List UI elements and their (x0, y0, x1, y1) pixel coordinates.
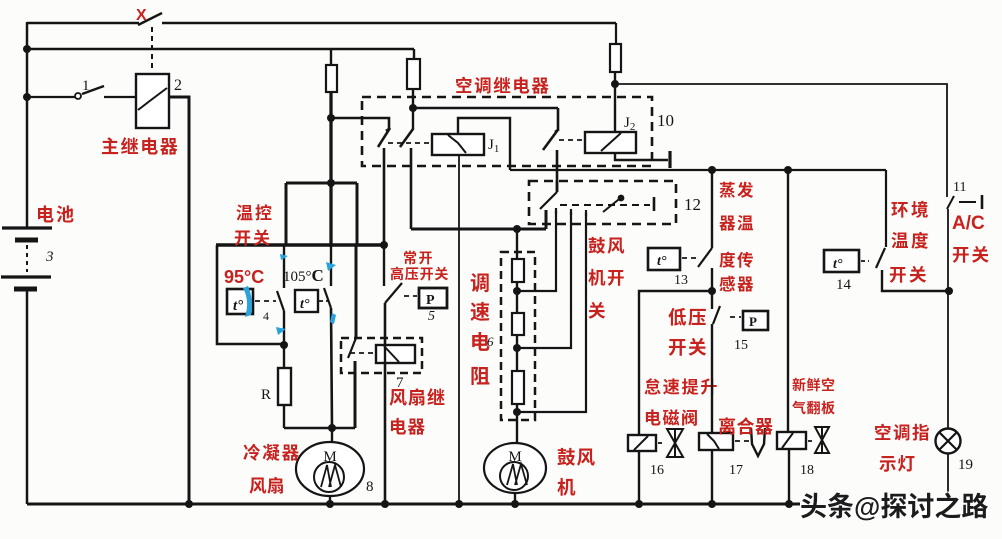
thermo sensor t-box 13 (648, 248, 680, 270)
A/C relay dashed box 10 (362, 97, 652, 166)
wire fuse F1 to node (329, 92, 332, 247)
relay J1 coil diagonal (448, 135, 466, 153)
blower switch contact tick2 (570, 209, 572, 215)
junction dot tap1 (513, 287, 521, 295)
svg-text:18: 18 (800, 463, 814, 478)
svg-text:风扇继: 风扇继 (389, 384, 446, 410)
svg-text:1: 1 (82, 78, 90, 94)
wire fuse F3 down to J2 coil (614, 72, 616, 132)
svg-text:95°C: 95°C (224, 267, 264, 287)
wire R to fan node (283, 405, 285, 428)
wire LP switch feed (711, 291, 713, 309)
fan relay coil box (376, 345, 415, 363)
AC switch fixed dash (959, 201, 976, 203)
junction dot HP switch node (380, 241, 388, 249)
mech dashed link 15 (730, 316, 741, 318)
svg-text:P: P (749, 314, 757, 329)
junction dot AC light node (945, 287, 953, 295)
wire top bus (battery + to X switch) (27, 22, 139, 25)
fan motor inner circle (314, 462, 344, 492)
wire evap node to solenoid (639, 291, 712, 435)
svg-text:头条@探讨之路: 头条@探讨之路 (800, 485, 988, 524)
wire K2 pivot to resistor bus (411, 228, 546, 231)
blower switch contact tick3 (585, 210, 587, 216)
wire 105 switch feed (330, 247, 332, 286)
svg-text:14: 14 (836, 277, 852, 293)
svg-text:温度: 温度 (891, 228, 931, 253)
junction dot bus flap (785, 500, 793, 508)
svg-text:器温: 器温 (719, 210, 755, 234)
svg-text:X: X (136, 7, 147, 24)
wire frame left leg (285, 183, 288, 245)
mech dashed link contacts to J1 (388, 142, 431, 144)
wire to resistor R (283, 345, 285, 368)
junction dot bus fan coil (381, 500, 389, 508)
svg-text:3: 3 (45, 249, 54, 265)
svg-text:鼓风: 鼓风 (588, 233, 626, 258)
junction dot fuse1 node (327, 114, 335, 122)
svg-text:11: 11 (953, 180, 966, 195)
wire ambient switch out (882, 270, 949, 291)
battery plate short top (15, 238, 38, 243)
pressure sensor box P5 (419, 288, 447, 308)
resistor r3 (512, 371, 524, 404)
wire clutch line through (711, 450, 713, 504)
clutch 17 coil diagonal (707, 434, 719, 449)
mech dashed link fan relay (350, 352, 375, 354)
junction dot bus fan motor (326, 500, 334, 508)
blower motor inner circle (500, 462, 528, 490)
wire thermo feed bus A (216, 243, 384, 247)
pressure sensor box P15 (743, 311, 768, 330)
wire blower switch feed (556, 181, 559, 192)
svg-text:8: 8 (366, 479, 374, 495)
valve symbol 16 (667, 429, 683, 457)
svg-text:P: P (426, 293, 435, 308)
junction dot evap branch (708, 166, 716, 174)
fan relay contact arm (348, 338, 356, 358)
wire main relay output (169, 97, 189, 504)
wire fan motor to ground bus (329, 496, 331, 504)
wire HP switch feed (383, 245, 385, 286)
svg-text:机: 机 (557, 474, 576, 500)
svg-text:气翻板: 气翻板 (792, 398, 836, 418)
wire contact K1 pivot down (383, 148, 386, 244)
junction dot fan motor feed (328, 424, 336, 432)
main relay coil diagonal (138, 88, 167, 110)
thermo sensor t-box 14 (824, 250, 859, 272)
svg-text:电磁阀: 电磁阀 (644, 404, 700, 429)
junction dot bus main relay (185, 500, 193, 508)
wire HP line through coil (384, 345, 386, 363)
wire frame top (286, 182, 357, 185)
cyan mark 5 (330, 313, 336, 324)
svg-text:J2: J2 (624, 115, 635, 133)
switch 1 arm (82, 86, 104, 94)
svg-text:t°: t° (657, 254, 667, 269)
svg-text:电器: 电器 (389, 414, 426, 439)
wire to ignition switch 1 (27, 96, 75, 98)
battery plate long top (2, 226, 52, 229)
mech dashed link 16 (658, 442, 664, 444)
svg-text:蒸发: 蒸发 (719, 177, 755, 201)
wire r3 down to blower (516, 404, 518, 445)
wire frame right leg (356, 183, 359, 245)
svg-text:开关: 开关 (668, 334, 708, 360)
svg-text:15: 15 (734, 338, 748, 353)
battery dashed middle (26, 245, 28, 272)
switch evap arm (698, 248, 712, 267)
mech dashed link HP (404, 295, 417, 297)
wire 95 switch out (283, 311, 285, 345)
fan relay dashed box 7 (341, 338, 422, 373)
switch 1 pivot circle (75, 93, 81, 99)
svg-text:A/C: A/C (952, 213, 985, 234)
relay contact K1 fixed terminal (331, 118, 389, 131)
switch HP arm (385, 283, 402, 303)
svg-text:调速电阻: 调速电阻 (470, 267, 490, 389)
wire J relay contact feed (413, 107, 558, 110)
wire solenoid16 line through (638, 451, 640, 504)
svg-text:开关: 开关 (889, 262, 929, 287)
svg-text:离合器: 离合器 (718, 413, 774, 439)
svg-text:低压: 低压 (668, 304, 708, 330)
wire evap switch feed (711, 170, 713, 248)
svg-text:鼓风: 鼓风 (557, 444, 596, 470)
wire ambient switch feed (885, 170, 887, 247)
svg-text:5: 5 (428, 309, 435, 324)
thermo sensor t-box 105 (295, 290, 318, 312)
wire evap switch out (711, 268, 713, 291)
relay J2 coil diagonal (601, 133, 621, 151)
cyan mark 1 (280, 254, 288, 260)
junction dot switch1 feed (23, 93, 31, 101)
svg-text:主继电器: 主继电器 (101, 133, 179, 159)
switch X contact arm (138, 13, 162, 25)
wire J1 coil bottom down (458, 155, 460, 504)
AC switch terminal bar (981, 195, 984, 209)
svg-text:105°C: 105°C (283, 266, 324, 285)
resistor r2 (512, 313, 524, 335)
junction dot fuse1-thermo node (327, 179, 335, 187)
svg-text:开关: 开关 (234, 224, 272, 249)
flap 18 coil diagonal (782, 433, 793, 448)
svg-text:高压开关: 高压开关 (390, 264, 449, 284)
switch 105 arm (324, 288, 331, 308)
wire 95 switch feed (283, 245, 285, 288)
blower switch wiper knob (618, 195, 625, 202)
switch 95 arm (277, 291, 284, 311)
junction dot resistor top (513, 225, 521, 233)
junction dot 95 out (280, 341, 288, 349)
wire switch1 to relay coil (104, 96, 136, 98)
solenoid 16 coil diagonal (634, 436, 648, 450)
svg-text:16: 16 (650, 463, 664, 478)
clutch pulley symbol (751, 428, 765, 456)
fan blade glyph (321, 465, 341, 487)
fuse F1 (326, 65, 337, 92)
svg-text:12: 12 (684, 195, 701, 214)
svg-text:开关: 开关 (952, 242, 991, 267)
wire battery negative down (26, 289, 29, 504)
svg-text:电池: 电池 (36, 201, 76, 227)
valve symbol 18 (815, 427, 829, 453)
blower motor M outer (484, 443, 546, 493)
wire tap3 (517, 213, 586, 412)
svg-text:t°: t° (300, 297, 310, 312)
dashed link X to main relay (151, 27, 153, 72)
svg-text:13: 13 (674, 273, 688, 288)
wire fuse F2 drop (413, 49, 415, 59)
blower switch wiper dashes (560, 204, 650, 206)
wire resistor bus riser (545, 210, 548, 229)
svg-text:6: 6 (487, 334, 494, 349)
junction dot bus clutch (708, 500, 716, 508)
wire fuse F2 down (412, 89, 414, 130)
wire contact K2 pivot down (410, 148, 413, 229)
junction dot J relay feed (409, 104, 417, 112)
svg-text:风扇: 风扇 (249, 473, 285, 498)
wire flap line through (788, 449, 790, 504)
wire flap feed (787, 170, 789, 432)
solenoid 16 coil box (628, 435, 656, 451)
junction dot low pressure node (708, 287, 716, 295)
wire top bus right of X switch (162, 22, 616, 25)
svg-text:R: R (261, 387, 271, 403)
wire fan contact feed (355, 245, 358, 338)
wire main feed to sensors (510, 169, 886, 171)
svg-text:新鲜空: 新鲜空 (792, 375, 836, 395)
mech dashed link 13 (682, 257, 698, 259)
junction dot bus blower (511, 500, 519, 508)
svg-text:机开: 机开 (588, 265, 626, 290)
wire thermo box left side (217, 245, 282, 344)
wire r1-r2 (516, 282, 518, 313)
mech dashed link 17 (735, 440, 749, 442)
wire fan contact out (354, 361, 357, 428)
fuse F2 (407, 59, 420, 89)
resistor r1 (512, 259, 524, 282)
svg-text:怠速提升: 怠速提升 (644, 373, 719, 398)
blower switch dashed box 12 (529, 181, 676, 224)
junction dot bus J1 (455, 500, 463, 508)
svg-text:t°: t° (833, 257, 843, 272)
junction dot tap2 (513, 344, 521, 352)
blower switch contact tick1 (555, 208, 557, 214)
svg-text:关: 关 (588, 298, 606, 323)
wire to fan motor (331, 428, 333, 442)
fuse F3 (610, 44, 621, 72)
wire left vertical battery feed (26, 22, 29, 228)
wire bus to A/C switch (615, 84, 947, 197)
relay contact K2 arm (400, 129, 413, 147)
svg-text:17: 17 (729, 463, 743, 478)
svg-text:J1: J1 (488, 137, 499, 155)
blower resistor dashed box 6 (501, 252, 535, 420)
fan relay coil diagonal (384, 346, 399, 362)
thermo sensor t-box 95 (227, 289, 253, 314)
wire J1 coil top link (458, 118, 510, 170)
relay contact K3 arm (543, 131, 557, 150)
junction dot fuse3 node (611, 80, 619, 88)
svg-text:感器: 感器 (719, 271, 755, 295)
wire top bus corner to fuse F3 (615, 23, 617, 44)
blower switch wiper arm (603, 196, 623, 212)
junction dot tap3 (513, 408, 521, 416)
wire 105 switch out (331, 308, 332, 428)
wire fan motor top bus (284, 427, 355, 430)
cyan mark 3 (326, 262, 336, 271)
mech dashed link 105 sensor (319, 300, 328, 302)
switch AC arm (947, 196, 954, 209)
svg-text:空调继电器: 空调继电器 (455, 73, 551, 98)
svg-text:t°: t° (233, 298, 243, 314)
wire tap2 (517, 212, 571, 348)
mech dashed link 14 (861, 260, 869, 262)
svg-text:19: 19 (958, 457, 973, 473)
wire resistor chain top (516, 229, 518, 259)
blower switch main arm (540, 192, 557, 209)
svg-text:度传: 度传 (719, 247, 755, 271)
switch LP arm (713, 306, 720, 324)
blower switch right bar (653, 197, 656, 211)
relay contact K3 fixed terminal (555, 108, 558, 132)
wire LP switch to clutch (711, 324, 713, 433)
wire tap1 (517, 211, 556, 291)
wire ground bus (27, 503, 800, 506)
main relay coil box 2 (136, 74, 169, 128)
relay contact K1 arm (378, 128, 390, 147)
svg-text:示灯: 示灯 (879, 451, 916, 476)
svg-text:温控: 温控 (236, 199, 274, 224)
wire AC switch down (947, 209, 949, 429)
wire second bus (27, 48, 414, 51)
mech dashed link 95 sensor (255, 300, 276, 302)
wire HP switch to fan relay coil (384, 303, 387, 504)
mech dashed link K3 to J2 (559, 139, 585, 141)
svg-text:空调指: 空调指 (874, 420, 931, 445)
wire fuse F1 drop (330, 49, 332, 65)
relay J1 coil box (432, 134, 484, 155)
mech dashed link 18 (808, 440, 814, 442)
wire r2-r3 (516, 335, 518, 371)
resistor R box (278, 368, 291, 405)
blower blade glyph (507, 464, 527, 485)
svg-text:10: 10 (657, 111, 674, 130)
junction dot bus solenoid (635, 500, 643, 508)
clutch 17 coil box (699, 433, 733, 450)
junction dot node B+ (23, 45, 31, 53)
relay J2 coil box (585, 132, 636, 153)
indicator lamp 19 (936, 429, 961, 454)
condenser fan motor M8 outer (296, 442, 364, 496)
wire contact K3 pivot down (556, 150, 559, 192)
battery plate short bottom (14, 287, 37, 292)
svg-text:4: 4 (263, 309, 269, 323)
junction dot flap branch (784, 166, 792, 174)
flap 18 coil box (777, 432, 806, 449)
cyan mark 4 (276, 327, 286, 335)
chassis terminal bar (668, 151, 671, 168)
cyan mark 2 (243, 286, 252, 317)
battery plate long bottom (1, 275, 51, 278)
wire lamp to ground (947, 454, 949, 494)
svg-text:冷凝器: 冷凝器 (243, 440, 301, 465)
wire blower motor to ground (514, 493, 516, 504)
svg-text:环境: 环境 (891, 197, 931, 222)
wire J2 coil to chassis terminal (615, 153, 668, 160)
svg-text:2: 2 (174, 77, 182, 94)
switch ambient arm (876, 248, 885, 268)
